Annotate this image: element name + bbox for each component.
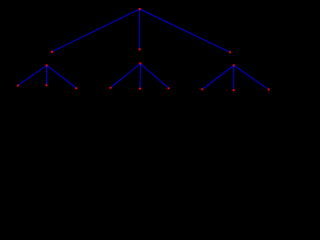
wire node B3 to leaf L9 bbox=[234, 65, 269, 89]
wire node B3 to leaf L7 bbox=[202, 65, 234, 89]
wire root to node A2 bbox=[139, 9, 141, 49]
node L1 bbox=[17, 84, 19, 86]
wire node B2 to leaf L4 bbox=[111, 64, 141, 88]
node L5 bbox=[139, 88, 141, 90]
node L4 bbox=[109, 87, 111, 89]
node L2 bbox=[45, 84, 47, 86]
node B2 bbox=[139, 62, 141, 64]
node root bbox=[139, 8, 141, 10]
wire root to node A3 bbox=[140, 9, 230, 52]
wire node B2 to leaf L5 bbox=[139, 64, 141, 89]
wire node B1 to leaf L3 bbox=[47, 65, 77, 88]
node L9 bbox=[268, 88, 270, 90]
node A2 bbox=[139, 48, 141, 50]
node B3 bbox=[233, 64, 235, 66]
node L6 bbox=[168, 87, 170, 89]
node A3 bbox=[229, 51, 231, 53]
wire root to node A1 bbox=[52, 9, 140, 52]
node L3 bbox=[75, 87, 77, 89]
wire node B2 to leaf L6 bbox=[140, 64, 168, 89]
wire node B1 to leaf L1 bbox=[18, 65, 47, 85]
node B1 bbox=[46, 64, 48, 66]
node L7 bbox=[201, 88, 203, 90]
wire node B3 to leaf L8 bbox=[233, 65, 235, 90]
node L8 bbox=[233, 89, 235, 91]
wire node B1 to leaf L2 bbox=[46, 65, 48, 85]
node A1 bbox=[51, 51, 53, 53]
